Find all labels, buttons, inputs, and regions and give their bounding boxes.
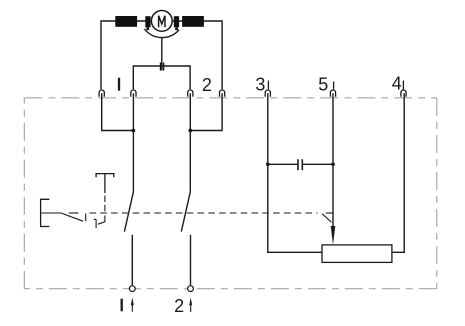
svg-text:2: 2 [202,75,212,95]
svg-text:3: 3 [255,74,265,94]
svg-text:4: 4 [392,73,402,93]
svg-text:5: 5 [318,75,328,95]
svg-text:2: 2 [174,296,184,316]
